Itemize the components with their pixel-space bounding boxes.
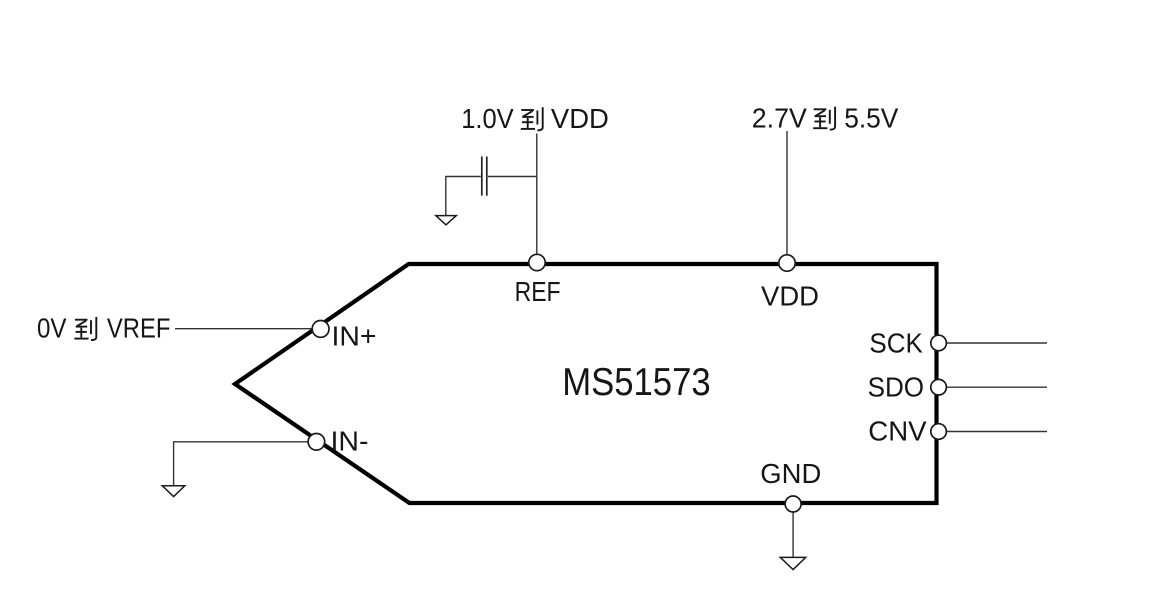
value label 到 (REF supply range) [521, 107, 543, 130]
wire SDO output [946, 386, 1047, 388]
wire IN- to ground [174, 442, 309, 485]
ground (IN-) [162, 486, 185, 497]
svg-text:IN+: IN+ [332, 320, 377, 351]
chip U1 MS51573 body outline [235, 264, 937, 503]
svg-text:VREF: VREF [107, 313, 170, 344]
ground (capacitor) [436, 216, 457, 225]
ground (GND) [780, 557, 805, 569]
wire GND to ground [792, 511, 794, 557]
wire capacitor right plate to REF net [488, 176, 537, 178]
svg-text:SDO: SDO [868, 372, 925, 403]
svg-text:VDD: VDD [551, 103, 609, 134]
pin SCK terminal circle [931, 335, 947, 351]
svg-text:VDD: VDD [761, 280, 819, 311]
svg-text:2.7V: 2.7V [752, 102, 807, 133]
svg-text:5.5V: 5.5V [844, 102, 898, 133]
wire capacitor left plate to ground [446, 177, 481, 216]
wire VDD supply vertical [786, 131, 788, 256]
svg-text:REF: REF [515, 276, 561, 307]
pin IN- terminal circle [308, 434, 325, 451]
capacitor C1 (decoupling, plates) [482, 157, 487, 196]
wire CNV input [946, 431, 1047, 433]
wire SCK output [946, 342, 1047, 344]
svg-text:GND: GND [760, 458, 821, 489]
pin CNV terminal circle [931, 424, 947, 440]
svg-text:0V: 0V [37, 313, 67, 344]
svg-text:SCK: SCK [869, 328, 923, 359]
pin REF terminal circle [529, 254, 545, 270]
wire REF supply vertical [536, 134, 538, 257]
svg-text:CNV: CNV [868, 416, 927, 447]
svg-text:1.0V: 1.0V [461, 103, 514, 134]
pin SDO terminal circle [931, 379, 947, 395]
pin IN+ terminal circle [312, 321, 329, 338]
svg-text:MS51573: MS51573 [562, 361, 711, 404]
wire 0V-to-VREF source to IN+ [175, 328, 314, 330]
value label 到 (VDD supply range) [813, 107, 835, 130]
pin VDD terminal circle [779, 255, 795, 271]
svg-text:IN-: IN- [331, 425, 369, 456]
pin GND terminal circle [785, 496, 801, 512]
value label 到 (IN+ input range) [74, 317, 96, 340]
